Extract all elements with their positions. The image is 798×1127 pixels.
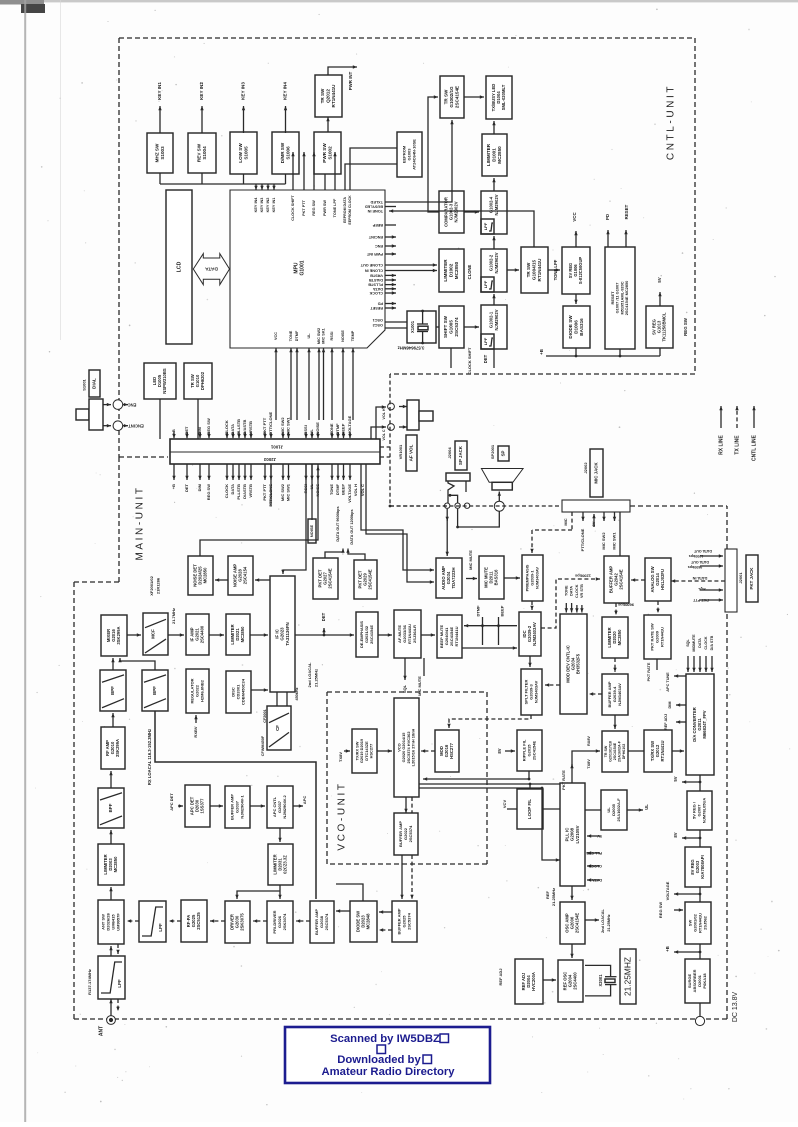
svg-text:CF: CF	[275, 725, 280, 731]
svg-text:CLOCK: CLOCK	[224, 484, 229, 498]
svg-text:REG SW: REG SW	[658, 902, 663, 918]
svg-text:8V: 8V	[591, 521, 596, 526]
svg-text:NJM2902V: NJM2902V	[494, 194, 499, 215]
svg-text:LPF: LPF	[483, 337, 488, 345]
svg-text:2SC4154: 2SC4154	[243, 566, 248, 584]
svg-text:J2001: J2001	[738, 572, 743, 584]
svg-text:PKT JACK: PKT JACK	[749, 567, 754, 590]
svg-text:DATA: DATA	[373, 287, 383, 291]
svg-text:REF ADJ: REF ADJ	[664, 714, 668, 730]
svg-text:2SA1602A-F: 2SA1602A-F	[618, 740, 622, 762]
svg-text:NJM3403AV: NJM3403AV	[534, 567, 539, 589]
svg-text:DATA: DATA	[205, 266, 218, 272]
svg-text:DET: DET	[184, 483, 189, 492]
svg-text:NOISE: NOISE	[315, 422, 320, 435]
svg-text:VOLTAGE: VOLTAGE	[347, 484, 352, 503]
svg-text:VOL H: VOL H	[382, 408, 386, 419]
svg-text:VOLTAGE: VOLTAGE	[665, 881, 670, 900]
svg-text:21.25MHz: 21.25MHz	[314, 669, 319, 687]
svg-text:DET: DET	[321, 612, 326, 621]
svg-text:APC DET: APC DET	[169, 793, 174, 811]
svg-text:VRSTB: VRSTB	[248, 484, 253, 498]
svg-text:AF VOL: AF VOL	[409, 444, 414, 461]
svg-text:HSC277: HSC277	[449, 742, 454, 758]
svg-text:MIC SW1: MIC SW1	[286, 417, 291, 435]
svg-text:LPF: LPF	[483, 222, 488, 230]
svg-text:UM9957F: UM9957F	[115, 913, 120, 931]
svg-text:MIC SW2: MIC SW2	[280, 417, 285, 435]
svg-text:MC2848: MC2848	[366, 913, 371, 929]
svg-text:PKT RATE: PKT RATE	[647, 662, 651, 681]
svg-text:MIC SW2: MIC SW2	[280, 483, 285, 501]
svg-text:TR SW: TR SW	[526, 262, 531, 277]
svg-text:MIC JACK: MIC JACK	[594, 462, 599, 484]
svg-text:2SC4154E MC2850: 2SC4154E MC2850	[624, 281, 629, 316]
svg-text:LIMMITER: LIMMITER	[443, 259, 448, 282]
svg-text:TONE LPF: TONE LPF	[553, 259, 558, 280]
svg-text:S1003: S1003	[160, 146, 165, 160]
svg-text:R137-174MHz: R137-174MHz	[87, 969, 92, 995]
svg-text:PLLSTB: PLLSTB	[236, 484, 241, 500]
svg-text:PTT/CLONE: PTT/CLONE	[268, 412, 273, 435]
svg-text:BEEP: BEEP	[341, 423, 346, 434]
svg-text:MIC MUTE: MIC MUTE	[417, 676, 422, 696]
svg-text:H2M6.8NB2: H2M6.8NB2	[199, 679, 204, 702]
svg-text:2SJ364-R: 2SJ364-R	[412, 625, 417, 643]
svg-text:S1001: S1001	[82, 378, 87, 390]
svg-text:X2001: X2001	[598, 974, 603, 987]
svg-text:KEY IN4: KEY IN4	[283, 82, 288, 100]
svg-text:VOL H: VOL H	[353, 484, 358, 496]
svg-text:3SK299A: 3SK299A	[115, 739, 120, 757]
svg-text:DATA: DATA	[698, 638, 702, 648]
svg-text:TONE: TONE	[329, 423, 334, 434]
svg-text:DPH6102: DPH6102	[622, 744, 626, 760]
svg-text:CDBM450C24: CDBM450C24	[240, 678, 245, 705]
svg-text:TDA7233H: TDA7233H	[451, 568, 456, 589]
svg-text:AT24C64N-10SE: AT24C64N-10SE	[411, 139, 416, 170]
svg-text:CLOCK: CLOCK	[575, 584, 579, 598]
svg-text:SP2001: SP2001	[490, 444, 495, 459]
svg-text:VOLTAGE: VOLTAGE	[347, 415, 352, 434]
svg-text:TR SW: TR SW	[320, 88, 325, 103]
svg-text:TONE IN: TONE IN	[367, 209, 383, 213]
svg-text:LCD: LCD	[176, 261, 182, 272]
svg-text:SQL: SQL	[402, 684, 407, 693]
svg-text:LPF: LPF	[158, 923, 163, 932]
svg-text:2SC4400: 2SC4400	[573, 972, 578, 990]
svg-text:NOISE: NOISE	[341, 330, 345, 342]
svg-text:EEPROM CLOCK: EEPROM CLOCK	[348, 195, 352, 225]
svg-text:DATA: DATA	[230, 484, 235, 495]
svg-text:2SC4154E: 2SC4154E	[368, 569, 373, 589]
svg-text:2nd LOACAL: 2nd LOACAL	[601, 909, 605, 933]
svg-text:NJM2904V-1: NJM2904V-1	[239, 795, 244, 819]
svg-text:G1004/15: G1004/15	[532, 259, 537, 280]
svg-text:G1002-1: G1002-1	[489, 311, 494, 328]
svg-text:RT1N441U: RT1N441U	[660, 741, 665, 762]
svg-text:TR SW: TR SW	[444, 89, 449, 104]
svg-text:RX LOACAL 116.3-152.3MHz: RX LOACAL 116.3-152.3MHz	[147, 729, 152, 785]
svg-text:MIC SK1: MIC SK1	[322, 328, 326, 343]
svg-text:RSSI: RSSI	[330, 332, 334, 341]
svg-text:ANT: ANT	[98, 1026, 104, 1036]
svg-text:DC 13.8V: DC 13.8V	[732, 992, 739, 1023]
svg-text:8V: 8V	[673, 832, 678, 837]
svg-text:LPF: LPF	[117, 979, 122, 988]
svg-text:PWR INT: PWR INT	[348, 71, 353, 90]
svg-text:2nd LOACAL: 2nd LOACAL	[307, 662, 312, 687]
svg-text:G1002-2: G1002-2	[489, 254, 494, 271]
svg-text:MC2850: MC2850	[113, 856, 118, 872]
svg-text:XF2001/02: XF2001/02	[149, 575, 154, 595]
svg-text:CLOCK: CLOCK	[704, 636, 708, 649]
svg-text:D1001: D1001	[492, 148, 497, 162]
svg-text:TONE: TONE	[564, 585, 568, 596]
svg-text:2SC5125: 2SC5125	[196, 912, 201, 930]
svg-text:L2015/16 27nH 18nH: L2015/16 27nH 18nH	[411, 729, 416, 767]
svg-text:PLL IC: PLL IC	[564, 827, 569, 842]
svg-text:CFWM450F: CFWM450F	[261, 735, 265, 756]
svg-text:G1001: G1001	[299, 260, 305, 275]
svg-text:DATA OUT 1200bps: DATA OUT 1200bps	[350, 509, 354, 544]
svg-text:X1001: X1001	[410, 320, 415, 333]
svg-text:REG SW: REG SW	[206, 484, 211, 500]
svg-text:HN1J02FU: HN1J02FU	[660, 569, 665, 590]
svg-text:2SC5374: 2SC5374	[406, 912, 411, 929]
svg-text:ENC: ENC	[375, 244, 383, 248]
svg-text:LPF: LPF	[483, 280, 488, 288]
svg-text:BPF: BPF	[152, 686, 157, 695]
svg-text:NJM3403AV: NJM3403AV	[533, 680, 538, 703]
svg-text:TK11250BMCL: TK11250BMCL	[662, 312, 667, 342]
svg-text:2SC4154E: 2SC4154E	[613, 742, 617, 760]
svg-text:RT1N441U: RT1N441U	[659, 627, 664, 647]
svg-text:CLOCK: CLOCK	[224, 420, 229, 434]
svg-text:PLLSTB: PLLSTB	[368, 283, 383, 287]
svg-text:J2002: J2002	[583, 462, 588, 474]
svg-text:2SA1602A-F: 2SA1602A-F	[616, 798, 621, 822]
svg-text:Q2012: Q2012	[326, 89, 331, 103]
svg-text:02CZ3.3Z: 02CZ3.3Z	[283, 855, 288, 874]
svg-text:J2004: J2004	[447, 447, 452, 459]
svg-text:2SC4154E: 2SC4154E	[619, 569, 624, 589]
svg-text:9600bps: 9600bps	[617, 602, 634, 607]
svg-text:DET: DET	[184, 426, 189, 435]
svg-text:REG SW: REG SW	[683, 317, 688, 336]
svg-text:RT1N441U: RT1N441U	[454, 626, 459, 646]
svg-text:PD: PD	[605, 214, 610, 220]
svg-text:M66834T_FPV: M66834T_FPV	[702, 710, 707, 738]
svg-text:D/MR SW: D/MR SW	[280, 142, 285, 163]
svg-text:RX LINE: RX LINE	[718, 434, 724, 454]
svg-text:2SK3074: 2SK3074	[282, 913, 287, 930]
svg-text:S1002: S1002	[327, 146, 332, 160]
svg-text:TEMP: TEMP	[351, 330, 355, 341]
svg-text:PKT PTT: PKT PTT	[302, 199, 306, 216]
svg-text:VRSTB: VRSTB	[370, 273, 383, 277]
svg-text:D1006: D1006	[574, 320, 579, 334]
svg-text:450kHz: 450kHz	[295, 687, 299, 700]
svg-text:TX LINE: TX LINE	[734, 435, 740, 455]
svg-text:LIMMITER: LIMMITER	[486, 143, 491, 166]
svg-text:REV SW: REV SW	[196, 143, 201, 162]
svg-text:TA31136FN: TA31136FN	[285, 622, 290, 645]
svg-text:3.579646MHz: 3.579646MHz	[398, 345, 425, 350]
svg-text:MIC SW2: MIC SW2	[601, 532, 606, 550]
svg-text:PKT PTT: PKT PTT	[262, 417, 267, 434]
svg-text:KEY IN3: KEY IN3	[241, 82, 246, 100]
svg-text:DPH6202: DPH6202	[200, 371, 205, 390]
svg-text:RXBV: RXBV	[193, 726, 198, 737]
svg-text:21.25MHz: 21.25MHz	[607, 914, 611, 931]
svg-text:S1004: S1004	[202, 146, 207, 160]
svg-text:G2023: G2023	[280, 627, 285, 641]
svg-text:DIAL: DIAL	[92, 378, 97, 389]
svg-text:VCO-UNIT: VCO-UNIT	[337, 781, 348, 850]
svg-text:SP: SP	[501, 451, 506, 457]
svg-text:CLONE: CLONE	[467, 264, 472, 279]
svg-text:MIC SW1: MIC SW1	[612, 532, 617, 550]
svg-text:2SC4154E: 2SC4154E	[575, 913, 580, 933]
svg-text:G1005: G1005	[449, 320, 454, 334]
svg-text:D/ASTB: D/ASTB	[242, 420, 247, 435]
svg-text:P6KA18: P6KA18	[702, 973, 707, 989]
svg-text:PLL STB: PLL STB	[586, 851, 602, 855]
svg-text:D/ASTB: D/ASTB	[369, 278, 383, 282]
svg-text:Scanned by IW5DBZ: Scanned by IW5DBZ	[330, 1033, 440, 1045]
svg-text:TX8V: TX8V	[587, 759, 591, 769]
svg-text:UL: UL	[644, 804, 649, 810]
svg-text:PD: PD	[377, 302, 383, 306]
svg-text:2SC4154E: 2SC4154E	[455, 86, 460, 108]
svg-text:RT1N441U: RT1N441U	[537, 258, 542, 282]
svg-text:BEEP: BEEP	[372, 223, 383, 227]
svg-text:ENC: ENC	[128, 402, 137, 407]
svg-text:S1005: S1005	[243, 146, 248, 160]
svg-text:RSSI: RSSI	[303, 425, 308, 434]
svg-text:SML-020MLT: SML-020MLT	[501, 84, 506, 110]
svg-text:OSC1: OSC1	[373, 318, 383, 322]
svg-text:BPF: BPF	[108, 803, 113, 812]
svg-text:DET: DET	[483, 354, 488, 363]
svg-text:S1006: S1006	[285, 146, 290, 160]
svg-text:PKT RATE: PKT RATE	[561, 770, 566, 790]
svg-text:G2013/17/18: G2013/17/18	[608, 741, 612, 762]
svg-text:DATA: DATA	[230, 424, 235, 435]
svg-text:DATA OUT 9600bps: DATA OUT 9600bps	[336, 506, 340, 541]
svg-text:BAS316: BAS316	[579, 318, 584, 336]
svg-text:CNTL-UNIT: CNTL-UNIT	[666, 84, 677, 160]
svg-text:VCC: VCC	[274, 332, 278, 340]
svg-text:D1002: D1002	[449, 263, 454, 277]
svg-text:SHIFT SW: SHIFT SW	[443, 315, 448, 338]
svg-text:VR1001: VR1001	[398, 444, 403, 459]
svg-text:APC TUNE: APC TUNE	[666, 672, 670, 692]
svg-text:21.25MHz: 21.25MHz	[551, 888, 556, 906]
svg-text:RT1N441U: RT1N441U	[331, 84, 336, 108]
svg-text:KIA7808API: KIA7808API	[700, 855, 705, 879]
svg-text:5V: 5V	[673, 776, 678, 781]
svg-text:TX8V: TX8V	[338, 752, 343, 762]
svg-text:IF IC: IF IC	[274, 628, 279, 638]
svg-text:RESET: RESET	[624, 204, 629, 219]
svg-text:NJM3403AV: NJM3403AV	[617, 683, 622, 706]
svg-text:J1001: J1001	[270, 444, 283, 449]
svg-text:2SC4154E: 2SC4154E	[369, 625, 374, 644]
svg-text:BEEP: BEEP	[341, 484, 346, 495]
svg-text:D/A STB: D/A STB	[710, 635, 714, 650]
svg-text:5V: 5V	[657, 277, 662, 282]
svg-text:PKT PTT: PKT PTT	[262, 483, 267, 500]
svg-text:MC2850: MC2850	[240, 626, 245, 642]
svg-text:VRSTB: VRSTB	[248, 421, 253, 435]
svg-text:+B: +B	[539, 349, 544, 355]
svg-text:RESET: RESET	[370, 306, 383, 310]
svg-text:BH3532F5: BH3532F5	[576, 653, 581, 674]
svg-text:DATA: DATA	[570, 586, 574, 596]
svg-text:PTT/CLONE: PTT/CLONE	[580, 528, 585, 551]
svg-text:DATA IN: DATA IN	[692, 576, 707, 580]
svg-text:BAS316: BAS316	[494, 569, 499, 585]
svg-text:2SC5374: 2SC5374	[324, 913, 329, 930]
svg-text:J2003: J2003	[263, 457, 276, 462]
svg-text:2SC4154E: 2SC4154E	[328, 568, 333, 588]
svg-text:21.7MHz: 21.7MHz	[171, 608, 176, 624]
svg-text:CLOCK: CLOCK	[369, 291, 383, 295]
svg-text:PWR INT: PWR INT	[366, 252, 383, 256]
svg-text:S-812C50GUP: S-812C50GUP	[578, 257, 583, 285]
svg-text:DTMF: DTMF	[476, 605, 481, 617]
svg-text:1SS377: 1SS377	[200, 798, 205, 814]
svg-text:Downloaded by: Downloaded by	[337, 1054, 421, 1066]
svg-text:BPF: BPF	[110, 686, 115, 695]
svg-text:NJM3403AV: NJM3403AV	[532, 622, 537, 646]
svg-text:NJM2902V: NJM2902V	[494, 309, 499, 330]
svg-text:REG SW: REG SW	[312, 200, 316, 216]
svg-text:VR STB: VR STB	[580, 584, 584, 598]
svg-text:CF2001: CF2001	[263, 709, 267, 723]
svg-text:DATA: DATA	[592, 878, 602, 882]
svg-text:TONE LPF: TONE LPF	[333, 198, 337, 217]
svg-text:21.25MHZ: 21.25MHZ	[623, 957, 633, 996]
svg-text:2SC4154E: 2SC4154E	[531, 741, 536, 761]
svg-text:CLOCK SHIFT: CLOCK SHIFT	[291, 195, 295, 221]
svg-text:REF: REF	[545, 890, 550, 899]
svg-text:D/ASTB: D/ASTB	[242, 484, 247, 499]
svg-text:CNTL LINE: CNTL LINE	[751, 434, 757, 461]
svg-text:ENCINT: ENCINT	[368, 235, 383, 239]
svg-text:MC2850: MC2850	[454, 261, 459, 279]
svg-text:UL: UL	[307, 333, 311, 339]
svg-text:2SJ562: 2SJ562	[702, 915, 707, 930]
svg-text:MIC: MIC	[563, 518, 568, 525]
svg-text:TXLED: TXLED	[370, 200, 383, 204]
svg-text:TONE: TONE	[289, 330, 293, 341]
svg-text:MIC SW1: MIC SW1	[286, 483, 291, 501]
svg-text:KEY IN2: KEY IN2	[266, 198, 270, 213]
svg-text:2SC5374: 2SC5374	[408, 825, 413, 842]
svg-text:PLLSTB: PLLSTB	[236, 419, 241, 435]
svg-text:MC2850: MC2850	[617, 629, 622, 645]
svg-text:LV2105V: LV2105V	[575, 825, 580, 843]
svg-text:1200bps: 1200bps	[574, 573, 591, 578]
svg-text:SQL: SQL	[686, 638, 690, 646]
svg-text:G2008: G2008	[570, 827, 575, 841]
svg-text:VCV: VCV	[502, 800, 507, 809]
svg-text:HSC277: HSC277	[369, 744, 374, 759]
svg-text:NJM2902V: NJM2902V	[494, 252, 499, 273]
svg-text:KEY IN1: KEY IN1	[272, 198, 276, 213]
svg-text:DIODE SW: DIODE SW	[568, 315, 573, 339]
svg-text:APC: APC	[302, 796, 307, 805]
svg-text:+B: +B	[171, 429, 176, 434]
svg-text:UL: UL	[309, 429, 314, 435]
svg-text:MCF: MCF	[151, 629, 156, 639]
svg-text:HVC200A: HVC200A	[531, 972, 536, 991]
svg-text:NOISE: NOISE	[309, 524, 314, 537]
svg-text:KEY IN2: KEY IN2	[199, 82, 204, 100]
svg-text:BEEP: BEEP	[500, 605, 505, 616]
svg-text:MC2850: MC2850	[497, 146, 502, 164]
svg-text:VCC: VCC	[572, 212, 577, 222]
svg-text:DTMF: DTMF	[335, 483, 340, 495]
svg-text:VOL C: VOL C	[382, 429, 386, 440]
svg-text:8V: 8V	[497, 748, 502, 753]
svg-text:MAIN-UNIT: MAIN-UNIT	[135, 485, 146, 560]
svg-text:5V: 5V	[597, 834, 602, 838]
svg-text:DIM: DIM	[668, 702, 672, 709]
svg-text:2SC5374: 2SC5374	[454, 317, 459, 337]
svg-text:KEY IN3: KEY IN3	[260, 198, 264, 213]
svg-text:REF ADJ: REF ADJ	[498, 969, 503, 986]
svg-text:LOOP FIL: LOOP FIL	[527, 799, 532, 819]
svg-text:+B: +B	[171, 484, 176, 489]
svg-text:+B: +B	[665, 946, 670, 951]
svg-text:NSPW310BS: NSPW310BS	[162, 368, 167, 394]
svg-text:NJM78L05UA: NJM78L05UA	[701, 798, 706, 824]
svg-text:DATA OUT: DATA OUT	[690, 560, 709, 564]
svg-text:CLOCK: CLOCK	[588, 864, 602, 868]
svg-text:TONE: TONE	[329, 484, 334, 495]
svg-text:PWR SW: PWR SW	[322, 143, 327, 163]
svg-text:G1002/1G: G1002/1G	[449, 86, 454, 108]
svg-text:EEPROM DATA: EEPROM DATA	[343, 197, 347, 223]
svg-text:2SK3075: 2SK3075	[240, 913, 245, 931]
svg-text:MHZ SW: MHZ SW	[154, 143, 159, 162]
svg-text:3SK299A: 3SK299A	[116, 626, 121, 644]
svg-text:MIDMUTE: MIDMUTE	[692, 634, 696, 652]
svg-text:DTMF: DTMF	[335, 423, 340, 435]
svg-text:SP JACK: SP JACK	[458, 445, 463, 465]
svg-text:21R1286: 21R1286	[156, 577, 161, 594]
svg-text:2SC4400: 2SC4400	[200, 625, 205, 643]
svg-text:NJM2904V-2: NJM2904V-2	[282, 795, 287, 819]
svg-text:CLOCK SHIFT: CLOCK SHIFT	[467, 347, 472, 374]
svg-text:OSC2: OSC2	[373, 323, 383, 327]
svg-text:KEY IN1: KEY IN1	[157, 82, 162, 100]
svg-text:NJM2902V: NJM2902V	[454, 201, 459, 222]
svg-text:CLONE IN: CLONE IN	[365, 269, 383, 273]
svg-text:ENCINT: ENCINT	[128, 424, 144, 429]
svg-text:MIC SW2: MIC SW2	[317, 328, 321, 344]
svg-text:DIM: DIM	[197, 483, 202, 491]
svg-text:TR SW: TR SW	[604, 745, 608, 757]
svg-text:MC2850: MC2850	[203, 567, 208, 583]
svg-text:Amateur Radio Directory: Amateur Radio Directory	[321, 1066, 455, 1078]
svg-text:LOW SW: LOW SW	[238, 143, 243, 163]
svg-text:PWR SW: PWR SW	[323, 200, 327, 216]
